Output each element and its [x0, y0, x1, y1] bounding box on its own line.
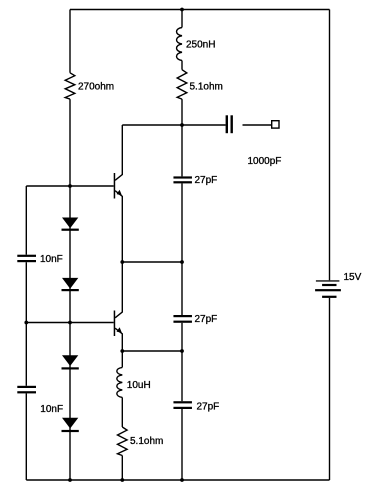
wire Q2 emitter node down — [121, 351, 123, 367]
diode D4 — [62, 418, 78, 429]
wire top rail — [70, 9, 330, 11]
junction dot bottom 5.1ohm — [120, 478, 124, 482]
wire far-left branch lower — [25, 393, 27, 480]
wire base Q2 — [26, 322, 113, 324]
wire coupling node to cap 1000pF — [182, 124, 226, 126]
resistor 270ohm — [65, 73, 75, 99]
inductor 250nH — [177, 28, 182, 61]
transistor Q2 emitter arrow — [117, 327, 122, 333]
capacitor 10nF lower plates — [17, 386, 36, 388]
wire middle branch cap2 to cap3 — [181, 323, 183, 401]
transistor Q1 collector lead — [115, 125, 122, 180]
wire base Q1 — [26, 185, 113, 187]
wire right rail upper — [329, 10, 331, 281]
wire cap 1000pF to port — [243, 124, 272, 126]
capacitor 10nF upper plates — [17, 255, 36, 257]
wire middle branch top — [181, 10, 183, 28]
junction dot base1 left rail — [68, 184, 72, 188]
svg-text:270ohm: 270ohm — [78, 81, 114, 92]
capacitor 27pF middle plates — [173, 315, 192, 317]
svg-text:27pF: 27pF — [197, 401, 220, 412]
wire between 250nH and 5.1ohm — [181, 61, 183, 70]
svg-text:15V: 15V — [344, 272, 362, 283]
transistor Q1 base bar — [114, 173, 116, 199]
battery 15V bars — [316, 280, 340, 281]
svg-text:27pF: 27pF — [195, 175, 218, 186]
svg-text:10nF: 10nF — [40, 404, 63, 415]
wire collector node Q1 — [122, 124, 182, 126]
wire far-left branch upper — [25, 186, 27, 255]
junction dot coupling node — [180, 123, 184, 127]
transistor Q2 collector lead — [115, 262, 122, 318]
capacitor 27pF upper plates — [173, 176, 192, 178]
wire emitter Q1 to middle branch — [122, 261, 182, 263]
junction dot top middle — [180, 8, 184, 12]
diode D1 — [62, 218, 78, 229]
diode D3 — [62, 355, 78, 366]
wire middle branch to cap1 — [181, 99, 183, 176]
resistor 5.1ohm lower — [118, 427, 128, 456]
junction dot emitter2 right — [180, 349, 184, 353]
capacitor 1000pF plates — [226, 115, 228, 133]
transistor Q1 emitter lead — [115, 191, 122, 262]
wire 10uH to 5.1ohm — [121, 397, 123, 427]
output port — [272, 121, 279, 128]
svg-text:5.1ohm: 5.1ohm — [190, 81, 223, 92]
wire far-left branch middle — [25, 262, 27, 386]
junction dot bottom middle — [180, 478, 184, 482]
svg-text:5.1ohm: 5.1ohm — [130, 436, 163, 447]
wire left rail lower — [69, 99, 71, 480]
junction dot base2 far-left — [24, 321, 28, 325]
junction dot bottom left rail — [68, 478, 72, 482]
transistor Q2 emitter lead — [115, 328, 122, 351]
junction dot emitter2 left — [120, 349, 124, 353]
wire middle branch cap3 to bottom — [181, 409, 183, 480]
svg-text:10uH: 10uH — [127, 380, 151, 391]
svg-text:27pF: 27pF — [195, 314, 218, 325]
junction dot emitter1 left — [120, 260, 124, 264]
svg-text:250nH: 250nH — [186, 39, 215, 50]
wire 5.1ohm to bottom rail — [121, 456, 123, 481]
wire right rail lower — [329, 298, 331, 480]
capacitor 27pF lower plates — [173, 401, 192, 403]
diode D2 — [62, 278, 78, 289]
transistor Q2 base bar — [114, 311, 116, 337]
inductor 10uH — [117, 367, 122, 397]
transistor Q1 emitter arrow — [117, 190, 122, 196]
junction dot emitter1 right — [180, 260, 184, 264]
wire bottom rail — [26, 479, 329, 481]
svg-text:10nF: 10nF — [40, 254, 63, 265]
wire left rail upper — [69, 10, 71, 73]
junction dot base2 left rail — [68, 321, 72, 325]
resistor 5.1ohm upper — [177, 70, 187, 99]
wire emitter Q2 to middle branch — [122, 350, 182, 352]
svg-text:1000pF: 1000pF — [248, 156, 282, 167]
wire middle branch cap1 to cap2 — [181, 183, 183, 315]
